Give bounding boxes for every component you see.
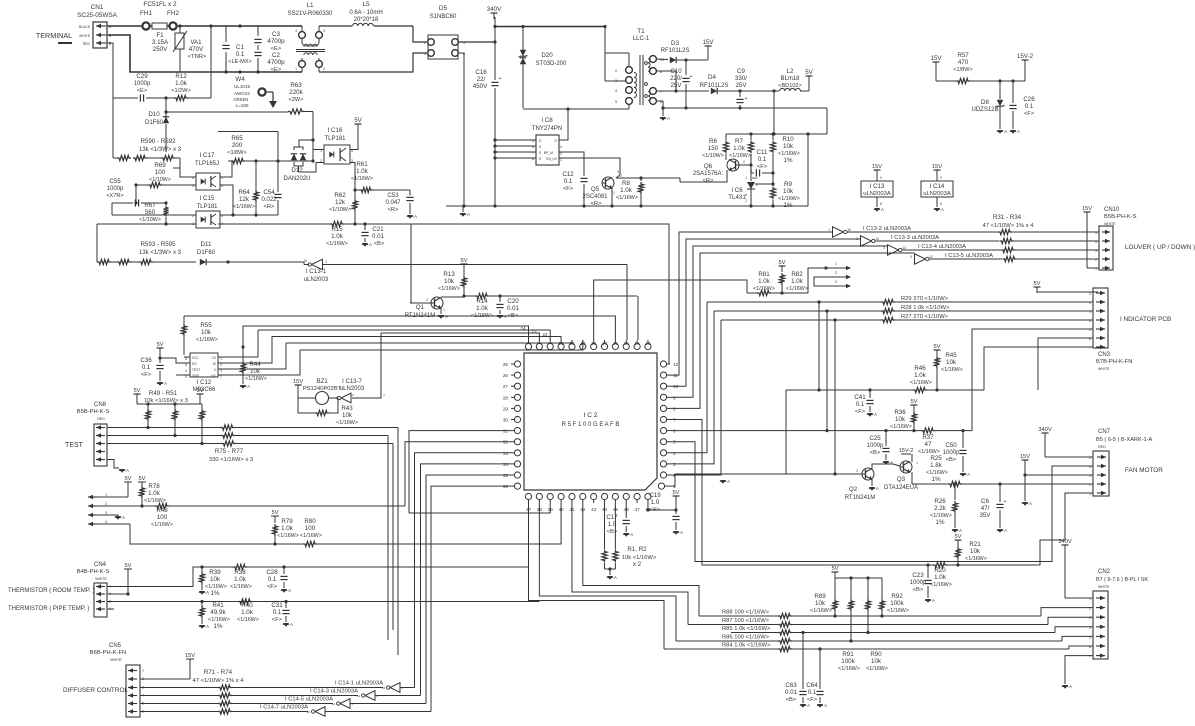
svg-text:1: 1 <box>325 260 327 264</box>
svg-text:<1/16W>: <1/16W> <box>351 176 373 182</box>
svg-text:4: 4 <box>105 520 107 524</box>
svg-text:R84 1.0k <1/16W>: R84 1.0k <1/16W> <box>722 643 771 649</box>
resistors R31-R34 <box>983 214 1099 262</box>
resistor R48 <box>142 503 405 528</box>
svg-text:<R>: <R> <box>703 178 715 184</box>
ground CN7 <box>1022 475 1032 506</box>
svg-text:TLP181: TLP181 <box>196 204 218 210</box>
wire IC2 pin31 <box>409 431 511 513</box>
svg-text:2SC4081: 2SC4081 <box>582 194 608 200</box>
svg-text:VCC: VCC <box>192 356 199 360</box>
svg-text:25V: 25V <box>670 82 682 89</box>
wire 340V down C16 <box>494 42 496 206</box>
svg-text:<F>: <F> <box>757 164 768 170</box>
transformer T1 <box>615 28 664 105</box>
svg-text:I C 2: I C 2 <box>584 412 598 419</box>
svg-text:<1/16W>: <1/16W> <box>277 533 299 539</box>
wire TEST2 down <box>235 436 388 641</box>
svg-text:R9: R9 <box>784 181 792 188</box>
ground CN2 <box>1062 656 1093 689</box>
svg-text:R27 270 <1/10W>: R27 270 <1/10W> <box>901 314 949 320</box>
svg-text:2: 2 <box>756 183 758 187</box>
5V power IC16 <box>354 117 362 130</box>
svg-text:THERMISTOR ( PIPE TEMP. ): THERMISTOR ( PIPE TEMP. ) <box>8 606 89 612</box>
svg-text:2: 2 <box>1089 301 1091 305</box>
svg-text:1%: 1% <box>784 157 793 164</box>
svg-text:DIFFUSER CONTROL: DIFFUSER CONTROL <box>63 687 128 694</box>
svg-text:1.0k: 1.0k <box>241 609 254 616</box>
svg-text:R71 - R74: R71 - R74 <box>204 669 233 676</box>
svg-text:R43: R43 <box>341 405 353 412</box>
capacitor C53 <box>385 190 413 214</box>
IC IC6 TL431 <box>728 173 774 206</box>
svg-text:3: 3 <box>1095 249 1097 253</box>
svg-text:A: A <box>680 530 683 535</box>
svg-text:35V: 35V <box>979 512 991 519</box>
pin arrows left 4x <box>88 493 142 526</box>
svg-text:D1F60: D1F60 <box>197 250 216 256</box>
wire T1 primary feed <box>605 27 629 82</box>
svg-text:8: 8 <box>880 202 882 206</box>
svg-text:4: 4 <box>910 255 912 259</box>
svg-text:R49 - R51: R49 - R51 <box>149 390 178 397</box>
svg-text:0.01: 0.01 <box>785 689 798 696</box>
wires IC8 left pins <box>493 138 536 159</box>
svg-text:15: 15 <box>624 341 630 346</box>
svg-text:<B>: <B> <box>374 241 385 247</box>
svg-text:<R>: <R> <box>264 204 276 210</box>
svg-text:L2: L2 <box>787 68 794 75</box>
svg-text:UL1015: UL1015 <box>234 84 251 89</box>
svg-text:5V: 5V <box>933 344 940 350</box>
resistor R21 <box>955 541 987 567</box>
svg-text:1: 1 <box>916 461 918 465</box>
wire IC2 pin32 <box>405 442 511 506</box>
svg-text:A: A <box>614 575 617 580</box>
svg-text:25: 25 <box>503 362 509 367</box>
svg-text:15V: 15V <box>1082 206 1092 212</box>
capacitor C29 <box>113 73 168 102</box>
svg-text:5: 5 <box>1095 231 1097 235</box>
capacitor C36 <box>140 356 167 386</box>
svg-text:15V-2: 15V-2 <box>899 448 914 454</box>
svg-text:0.1: 0.1 <box>268 576 277 583</box>
capacitor C9 <box>735 68 748 108</box>
resistor R26 <box>930 484 962 533</box>
svg-text:C26: C26 <box>1023 96 1035 103</box>
svg-text:R86 100 <1/16W>: R86 100 <1/16W> <box>722 635 770 641</box>
svg-text:2: 2 <box>1095 258 1097 262</box>
svg-text:5V: 5V <box>778 260 785 266</box>
pin arrows 3x <box>808 262 851 293</box>
resistor R7 <box>729 134 754 165</box>
svg-text:<X7R>: <X7R> <box>106 193 123 199</box>
svg-text:A: A <box>247 384 250 389</box>
svg-text:0.01: 0.01 <box>507 305 520 312</box>
svg-text:<B>: <B> <box>786 697 797 703</box>
svg-text:<R>: <R> <box>388 207 400 213</box>
svg-text:1.0k: 1.0k <box>356 168 369 175</box>
resistors R71-R74 <box>140 669 383 714</box>
svg-text:A: A <box>667 116 670 121</box>
svg-text:4: 4 <box>192 184 194 188</box>
svg-text:I C13-1: I C13-1 <box>306 268 327 275</box>
connector CN5 <box>90 643 144 717</box>
svg-text:<1/16W>: <1/16W> <box>245 376 267 382</box>
svg-text:<2W>: <2W> <box>289 97 304 103</box>
svg-text:0.1: 0.1 <box>564 178 573 185</box>
svg-text:L1: L1 <box>306 2 314 9</box>
svg-text:CS: CS <box>212 356 216 360</box>
svg-text:10k: 10k <box>783 143 794 150</box>
svg-text:DAN202U: DAN202U <box>283 176 310 182</box>
svg-text:R63: R63 <box>290 82 302 89</box>
5V power R82 <box>778 260 785 272</box>
svg-text:CN7: CN7 <box>1098 429 1111 435</box>
svg-text:<1/16W>: <1/16W> <box>965 556 987 562</box>
svg-text:R85 1.0k <1/16W>: R85 1.0k <1/16W> <box>722 626 771 632</box>
svg-text:2: 2 <box>560 152 562 156</box>
svg-text:I C6: I C6 <box>731 187 743 194</box>
15V-2 power <box>1017 53 1034 81</box>
svg-text:R21: R21 <box>969 541 981 548</box>
svg-text:<F>: <F> <box>855 409 866 415</box>
svg-text:5V: 5V <box>460 258 467 264</box>
wires display bus to CN2 <box>1041 608 1093 649</box>
wires CN8 pins <box>107 428 222 469</box>
svg-text:A: A <box>1029 501 1032 506</box>
svg-text:<1/16W>: <1/16W> <box>233 204 255 210</box>
ground CN8 <box>119 468 129 473</box>
wires IC16 <box>313 130 358 150</box>
svg-text:A: A <box>1069 684 1072 689</box>
svg-text:DO: DO <box>192 362 197 366</box>
svg-text:<1/16W>: <1/16W> <box>729 153 751 159</box>
svg-text:1%: 1% <box>211 590 220 597</box>
diode D20 <box>519 27 568 109</box>
svg-text:14: 14 <box>875 237 879 241</box>
svg-text:1.0k: 1.0k <box>331 233 344 240</box>
svg-text:F1: F1 <box>156 32 164 39</box>
capacitor C11 <box>750 149 775 180</box>
svg-text:R67: R67 <box>144 202 156 209</box>
svg-text:2: 2 <box>745 199 747 203</box>
svg-text:10k: 10k <box>210 576 221 583</box>
resistor R36 <box>890 409 917 431</box>
svg-text:29: 29 <box>503 406 509 411</box>
svg-text:100k: 100k <box>841 658 855 665</box>
svg-text:CN3: CN3 <box>1098 352 1111 358</box>
svg-text:330/: 330/ <box>735 75 747 82</box>
resistor R29 <box>707 296 1093 305</box>
svg-text:R29 270 <1/10W>: R29 270 <1/10W> <box>901 296 949 302</box>
svg-text:0.01: 0.01 <box>372 233 385 240</box>
wire CN4 5V join <box>114 594 128 609</box>
thermistor labels <box>8 588 94 612</box>
svg-text:I C14-7 uLN2003A: I C14-7 uLN2003A <box>260 705 308 711</box>
svg-text:<1/16W>: <1/16W> <box>336 420 358 426</box>
resistor R64 <box>233 161 259 217</box>
svg-text:DTA124EUA: DTA124EUA <box>884 485 918 491</box>
wire TEST3 down <box>236 444 394 631</box>
svg-text:CN1: CN1 <box>91 4 104 11</box>
svg-text:L5: L5 <box>362 1 370 8</box>
svg-text:C19: C19 <box>649 492 661 499</box>
svg-text:3: 3 <box>424 52 426 56</box>
diode D11 <box>197 241 296 265</box>
svg-text:Q2: Q2 <box>849 486 858 493</box>
svg-text:C11: C11 <box>757 149 768 156</box>
wire IC2 pin41 <box>572 503 688 625</box>
svg-text:<TNR>: <TNR> <box>188 54 207 60</box>
svg-text:R81: R81 <box>758 271 770 278</box>
svg-text:A: A <box>414 214 417 219</box>
svg-text:15V: 15V <box>1020 454 1030 460</box>
wire IC2 pin35 to IC14-5 <box>426 475 511 704</box>
svg-text:uLN2003A: uLN2003A <box>923 191 951 197</box>
svg-text:R28 1.0k <1/10W>: R28 1.0k <1/10W> <box>901 305 950 311</box>
CN1 pin5 arrow <box>96 41 106 45</box>
svg-text:R80: R80 <box>304 518 316 525</box>
svg-text:Q5: Q5 <box>591 186 600 193</box>
svg-text:C41: C41 <box>854 394 866 401</box>
svg-text:330 <1/16W> x 3: 330 <1/16W> x 3 <box>209 457 253 463</box>
transistor Q5 <box>582 170 620 207</box>
wire IC2 pin40 <box>317 503 561 544</box>
svg-text:<1/10W>: <1/10W> <box>702 153 724 159</box>
svg-text:R593 - R595: R593 - R595 <box>140 241 176 248</box>
svg-text:A: A <box>290 622 293 627</box>
wire IC2 pin14 from Q1 <box>637 296 639 340</box>
svg-text:C20: C20 <box>507 298 519 305</box>
svg-text:A: A <box>941 207 944 212</box>
svg-text:I C13-2 uLN2003A: I C13-2 uLN2003A <box>863 226 911 232</box>
svg-text:0.6A - 10mH: 0.6A - 10mH <box>349 10 382 16</box>
wire sec down <box>773 91 775 134</box>
IC14 triangles <box>260 681 431 717</box>
wire IC2 pin16 to R55 <box>184 316 615 340</box>
capacitor C6 <box>979 482 1007 533</box>
resistor R41 <box>199 600 230 630</box>
wire IC8 pin2 <box>559 152 584 176</box>
svg-text:<1/8W>: <1/8W> <box>953 67 973 73</box>
svg-text:BLm18: BLm18 <box>780 76 800 82</box>
svg-text:A: A <box>967 472 970 477</box>
svg-text:C55: C55 <box>109 178 121 185</box>
svg-text:4700p: 4700p <box>267 38 285 45</box>
svg-text:15V: 15V <box>930 55 942 62</box>
5V power R45 <box>933 344 940 356</box>
IC2 top pin numbers <box>520 326 651 346</box>
5V power R78b <box>138 476 146 486</box>
svg-text:B5B-PH-K-S: B5B-PH-K-S <box>77 409 110 415</box>
capacitor C26 <box>1009 81 1035 129</box>
svg-text:2: 2 <box>220 363 222 367</box>
resistor R39 <box>199 565 227 597</box>
ground mid <box>720 479 730 484</box>
svg-text:R37: R37 <box>922 434 934 441</box>
transistor Q6 <box>680 159 753 184</box>
wire IC2 pin18 to R81 <box>594 280 747 340</box>
340V power CN7 <box>1038 427 1093 457</box>
svg-text:I C15: I C15 <box>200 195 215 202</box>
svg-text:C28: C28 <box>266 569 278 576</box>
svg-text:A: A <box>876 486 879 491</box>
svg-text:I C14: I C14 <box>930 184 945 190</box>
svg-text:A: A <box>824 703 827 708</box>
svg-text:9: 9 <box>880 176 882 180</box>
svg-text:1000p: 1000p <box>943 450 960 456</box>
svg-text:20*20*18: 20*20*18 <box>354 17 379 23</box>
svg-text:1000p: 1000p <box>867 443 884 449</box>
svg-text:4: 4 <box>615 89 617 93</box>
wire arrow4 <box>130 524 264 544</box>
5V power R21 <box>954 534 961 548</box>
fuse holder FH2 <box>167 10 180 30</box>
resistor R46 <box>786 365 984 474</box>
15V power T1 <box>702 39 714 60</box>
svg-text:R79: R79 <box>281 518 293 525</box>
svg-text:<1/16W>: <1/16W> <box>151 522 173 528</box>
resistor R82 <box>779 271 808 293</box>
svg-text:B4B-PH-K-S: B4B-PH-K-S <box>77 569 110 575</box>
wire AC line top <box>107 24 296 27</box>
svg-text:CN4: CN4 <box>94 562 107 568</box>
svg-text:5V: 5V <box>910 399 917 405</box>
terminal label <box>36 31 72 43</box>
svg-text:340V: 340V <box>487 6 502 13</box>
svg-text:3: 3 <box>1089 310 1091 314</box>
15V power CN7 <box>1020 454 1093 477</box>
svg-text:A: A <box>727 479 730 484</box>
svg-text:100k: 100k <box>890 600 904 607</box>
capacitor C55 <box>106 178 167 215</box>
wire IC2 pin4 to R29 <box>670 302 707 453</box>
wires CN4 <box>107 567 539 609</box>
svg-text:10k: 10k <box>250 368 261 375</box>
svg-text:1.0: 1.0 <box>651 499 660 506</box>
svg-text:10: 10 <box>660 58 664 62</box>
svg-text:R 5 F 1 0 0 G E A F B: R 5 F 1 0 0 G E A F B <box>562 422 620 428</box>
wire T1 sec jumper 8-7 <box>656 71 677 93</box>
svg-text:<1/16W>: <1/16W> <box>838 666 860 672</box>
svg-text:VA1: VA1 <box>190 39 202 46</box>
svg-text:D1F60: D1F60 <box>145 120 164 126</box>
svg-text:<1/16W>: <1/16W> <box>616 195 638 201</box>
svg-text:<1/16W>: <1/16W> <box>237 617 259 623</box>
svg-text:1%: 1% <box>932 476 941 483</box>
svg-text:1.0k: 1.0k <box>234 576 247 583</box>
ground D8 <box>997 129 1007 134</box>
svg-text:1000p: 1000p <box>134 81 151 87</box>
svg-text:13k <1/3W> x 3: 13k <1/3W> x 3 <box>139 250 182 256</box>
svg-text:0.1: 0.1 <box>236 51 245 58</box>
svg-text:+: + <box>745 96 748 102</box>
15V power R57 <box>930 55 942 81</box>
svg-text:2: 2 <box>1089 483 1091 487</box>
svg-text:5: 5 <box>1089 456 1091 460</box>
svg-text:1: 1 <box>142 669 144 673</box>
svg-text:R1, R2: R1, R2 <box>627 546 647 553</box>
resistor R40 <box>237 599 288 623</box>
svg-text:A: A <box>932 598 935 603</box>
svg-text:2: 2 <box>426 298 428 302</box>
svg-text:RED: RED <box>97 417 105 421</box>
svg-text:R82: R82 <box>791 271 803 278</box>
svg-text:Q1: Q1 <box>416 304 425 311</box>
wire IC8 pin1 <box>559 158 620 175</box>
svg-text:560: 560 <box>145 209 156 216</box>
svg-text:4: 4 <box>560 145 562 149</box>
IC IC8 TNY274PN <box>532 117 562 165</box>
svg-text:4: 4 <box>1089 626 1091 630</box>
svg-text:I C13: I C13 <box>870 184 885 190</box>
svg-text:18: 18 <box>591 341 597 346</box>
resistors R593-R595 <box>97 224 196 265</box>
resistor R61 <box>350 161 410 193</box>
svg-text:C29: C29 <box>136 73 148 80</box>
svg-text:FH2: FH2 <box>167 10 180 17</box>
svg-text:R6: R6 <box>709 138 717 145</box>
svg-text:I C13-4 uLN2003A: I C13-4 uLN2003A <box>918 244 966 250</box>
svg-text:<1/16W>: <1/16W> <box>890 424 912 430</box>
svg-text:10k: 10k <box>895 416 906 423</box>
svg-text:5V: 5V <box>1033 281 1040 287</box>
svg-text:WHITE: WHITE <box>1098 585 1110 589</box>
svg-text:WHITE: WHITE <box>110 658 122 662</box>
svg-text:C17: C17 <box>606 514 618 521</box>
svg-text:10k: 10k <box>871 658 882 665</box>
svg-text:<1/10W>: <1/10W> <box>139 217 161 223</box>
svg-text:<1/16W>: <1/16W> <box>810 608 832 614</box>
svg-text:+: + <box>1004 499 1007 505</box>
svg-text:A: A <box>369 242 372 247</box>
svg-text:1%: 1% <box>214 623 223 630</box>
svg-text:GND: GND <box>192 374 200 378</box>
svg-text:C50: C50 <box>945 442 957 449</box>
svg-text:I C17: I C17 <box>200 152 215 159</box>
svg-text:6: 6 <box>1089 645 1091 649</box>
svg-text:5V: 5V <box>156 342 163 348</box>
resistor R65 <box>227 135 313 164</box>
svg-text:15V-2: 15V-2 <box>1017 53 1034 60</box>
resistor R6 <box>702 134 729 160</box>
340V power <box>487 6 502 19</box>
svg-text:1.0k: 1.0k <box>620 187 633 194</box>
svg-text:1: 1 <box>105 493 107 497</box>
svg-text:Q3: Q3 <box>897 476 906 483</box>
5V power L2 <box>805 69 813 91</box>
svg-text:13: 13 <box>645 341 651 346</box>
svg-text:L=160: L=160 <box>236 103 249 108</box>
svg-text:C23: C23 <box>912 572 924 579</box>
svg-text:14: 14 <box>357 694 361 698</box>
svg-text:<1/16W>: <1/16W> <box>438 286 460 292</box>
svg-text:2: 2 <box>320 159 322 163</box>
svg-text:B6B-PH-K-FN: B6B-PH-K-FN <box>90 650 126 656</box>
svg-text:LOUVER ( UP / DOWN ): LOUVER ( UP / DOWN ) <box>1125 244 1195 251</box>
5V power R78 <box>124 476 132 497</box>
svg-text:R10: R10 <box>782 136 794 143</box>
svg-text:R26: R26 <box>934 498 946 505</box>
svg-text:CN8: CN8 <box>94 402 107 408</box>
svg-text:1.0k: 1.0k <box>733 145 746 152</box>
resistor R55 <box>181 316 218 355</box>
diode pair D12 <box>283 140 324 182</box>
svg-text:NC: NC <box>211 374 216 378</box>
svg-text:5: 5 <box>615 100 617 104</box>
svg-text:D11: D11 <box>201 241 212 248</box>
